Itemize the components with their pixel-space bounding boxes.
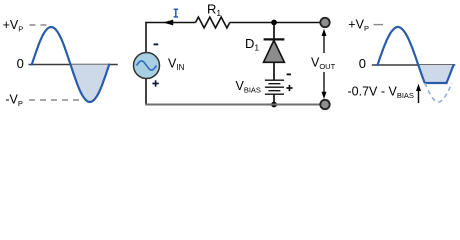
label I: [174, 9, 178, 17]
svg-text:VBIAS: VBIAS: [236, 79, 261, 95]
wire: battery to bottom rail: [273, 94, 275, 104]
wire: top from corner to resistor: [145, 22, 195, 24]
svg-text:-VP: -VP: [5, 92, 23, 108]
output terminal (bottom): [320, 100, 329, 109]
diode D1: wire from top junction: [273, 23, 275, 40]
output clipped lobe outline: [418, 65, 453, 83]
voltage source Vin circle: [134, 53, 160, 79]
svg-text:-0.7V - VBIAS: -0.7V - VBIAS: [348, 85, 414, 101]
battery minus sign: [287, 73, 291, 75]
input waveform +Vp dashed level: [30, 24, 48, 26]
svg-text:VIN: VIN: [168, 57, 185, 73]
input sine wave Vin: [32, 27, 109, 102]
battery plus sign: [286, 87, 292, 89]
source sine symbol: [137, 61, 157, 70]
output clipped lobe fill: [418, 65, 453, 83]
clip level arrow (pointing up): [418, 89, 420, 103]
input waveform zero axis: [29, 64, 118, 66]
Vout arrow (lower, pointing down): [323, 72, 325, 93]
source minus sign: [154, 43, 159, 45]
wire: left vertical (source branch): [145, 23, 147, 54]
clipped-away dashed curve: [425, 83, 452, 102]
resistor R1 zigzag: [196, 17, 230, 28]
output +Vp dashed level: [374, 24, 384, 26]
input waveform -Vp dashed level: [29, 99, 84, 101]
svg-text:+VP: +VP: [3, 18, 24, 34]
wire: resistor to output terminal: [230, 22, 321, 24]
current arrowhead I (pointing left): [163, 20, 173, 26]
battery Vbias plates: [265, 79, 284, 81]
output sine positive half: [378, 27, 419, 65]
svg-text:VOUT: VOUT: [311, 55, 336, 71]
junction node (top, diode branch): [271, 20, 277, 26]
wire: diode to battery: [273, 62, 275, 80]
svg-text:R1: R1: [207, 1, 221, 18]
bottom rail wire: [145, 104, 320, 106]
output terminal (top): [320, 18, 329, 27]
diode cathode bar: [264, 38, 285, 40]
output waveform zero axis: [372, 64, 456, 66]
source plus sign: [152, 83, 158, 85]
svg-text:+VP: +VP: [348, 18, 369, 33]
junction node (bottom, battery branch): [271, 102, 277, 108]
Vout arrow (upper, pointing up): [323, 34, 325, 53]
input waveform negative lobe fill: [71, 65, 110, 103]
svg-text:0: 0: [359, 56, 366, 71]
diode triangle (anode, pointing up): [264, 40, 285, 62]
svg-text:0: 0: [17, 56, 24, 71]
svg-text:D1: D1: [245, 36, 259, 53]
